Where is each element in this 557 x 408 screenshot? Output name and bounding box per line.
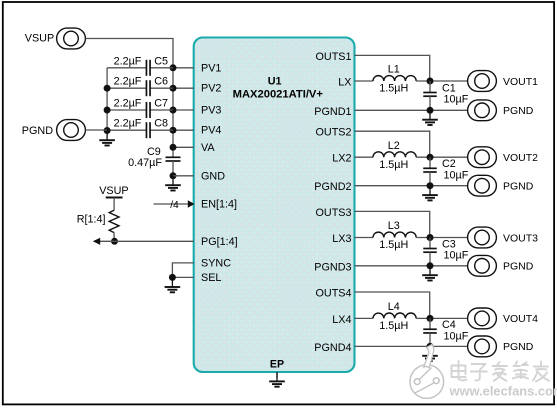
wire PGND to bus (85, 129, 107, 131)
terminal VOUT2 (468, 147, 497, 168)
svg-text:0.47µF: 0.47µF (128, 157, 162, 169)
junction PGND2 node (427, 182, 434, 189)
svg-text:PGND2: PGND2 (314, 181, 351, 193)
terminal PGND input (57, 120, 86, 141)
svg-text:OUTS2: OUTS2 (316, 127, 352, 139)
junction PV1 bus (170, 64, 177, 71)
svg-text:PV3: PV3 (201, 105, 221, 117)
terminal PGND out 3 (468, 255, 497, 276)
svg-text:EN[1:4]: EN[1:4] (201, 199, 237, 211)
wire OUTS2 (355, 131, 430, 154)
svg-text:1.5µH: 1.5µH (379, 239, 408, 251)
wire inductor to VOUT2 (416, 156, 468, 158)
svg-text:VOUT1: VOUT1 (503, 76, 538, 88)
wire OUTS4 (355, 292, 430, 315)
arrowhead PG output left (93, 238, 100, 245)
ground below SEL (165, 278, 181, 293)
svg-text:MAX20021ATI/V+: MAX20021ATI/V+ (233, 89, 324, 101)
ground below cap bus (99, 131, 115, 146)
wire VSUP to PV bus (85, 39, 173, 68)
svg-text:C2: C2 (442, 158, 456, 170)
wire cap ground bus (106, 68, 108, 131)
svg-text:2.2µF: 2.2µF (114, 98, 142, 110)
terminal VOUT3 (468, 227, 497, 248)
svg-text:VOUT2: VOUT2 (503, 152, 538, 164)
svg-text:C7: C7 (154, 98, 168, 110)
svg-text:R[1:4]: R[1:4] (77, 214, 106, 226)
svg-text:1.5µH: 1.5µH (379, 159, 408, 171)
svg-text:LX2: LX2 (332, 153, 351, 165)
terminal PGND out 1 (468, 100, 497, 121)
wire right of C5 (151, 67, 174, 69)
inductor L4 1.5uH (373, 313, 416, 318)
terminal VSUP input (57, 28, 86, 49)
resistor R[1:4] (109, 210, 119, 232)
wire down to C1 (429, 81, 431, 92)
svg-text:10µF: 10µF (444, 250, 469, 262)
wire LX2 to inductor (355, 156, 374, 158)
capacitor C5 2.2uF (146, 60, 150, 76)
wire to pin PV1 (173, 67, 194, 69)
wire down to C3 (429, 238, 431, 249)
svg-text:PV4: PV4 (201, 125, 221, 137)
svg-text:GND: GND (201, 170, 225, 182)
svg-text:VSUP: VSUP (25, 32, 54, 44)
wire PGND3 (355, 265, 468, 267)
capacitor C2 10uF (423, 168, 437, 172)
svg-text:VOUT3: VOUT3 (503, 232, 538, 244)
svg-text:PGND: PGND (503, 181, 534, 193)
ground channel 4 (422, 346, 438, 361)
junction PV3 bus (170, 107, 177, 114)
svg-text:VA: VA (201, 142, 215, 154)
svg-text:SYNC: SYNC (201, 257, 231, 269)
capacitor C6 2.2uF (146, 80, 150, 96)
junction PGND4 node (427, 343, 434, 350)
wire LX to inductor (355, 80, 374, 82)
IC U1 MAX20021ATI/V+ chip body (194, 38, 355, 373)
junction VA bus (170, 144, 177, 151)
wire right of C6 (151, 87, 174, 89)
wire to pin VA (173, 146, 194, 148)
wire rail to resistor (113, 198, 115, 211)
svg-text:www.elecfans.com: www.elecfans.com (449, 384, 557, 399)
wire C1 to PGND1 (429, 96, 431, 110)
ground channel 3 (422, 266, 438, 281)
svg-text:L4: L4 (388, 301, 400, 313)
junction PV2 bus (170, 85, 177, 92)
junction LX3 node (427, 234, 434, 241)
wire PV bus vertical (172, 68, 174, 158)
capacitor C4 10uF (423, 329, 437, 333)
terminal PGND out 2 (468, 175, 497, 196)
junction SEL (169, 274, 176, 281)
svg-text:2.2µF: 2.2µF (114, 76, 142, 88)
wire right of C7 (151, 109, 174, 111)
ground channel 2 (422, 186, 438, 201)
watermark magnifier icon (410, 345, 444, 399)
wire PGND2 (355, 185, 468, 187)
svg-text:PGND: PGND (503, 261, 534, 273)
svg-text:10µF: 10µF (444, 94, 469, 106)
wire right of C8 (151, 129, 174, 131)
svg-text:VOUT4: VOUT4 (503, 313, 538, 325)
wire C4 to PGND4 (429, 333, 431, 346)
junction PGND3 node (427, 262, 434, 269)
junction PGND1 node (427, 107, 434, 114)
wire inductor to VOUT4 (416, 317, 468, 319)
wire SYNC (172, 263, 193, 278)
power rail VSUP bar (106, 197, 123, 199)
svg-text:LX: LX (338, 77, 351, 89)
svg-text:LX4: LX4 (332, 314, 351, 326)
svg-text:2.2µF: 2.2µF (114, 55, 142, 67)
svg-text:2.2µF: 2.2µF (114, 118, 142, 130)
capacitor C7 2.2uF (146, 102, 150, 118)
wire to pin PV4 (173, 129, 194, 131)
svg-text:C8: C8 (154, 118, 168, 130)
wire C2 to PGND2 (429, 172, 431, 186)
junction cap bus (104, 107, 111, 114)
svg-text:PGND4: PGND4 (314, 342, 351, 354)
junction PV4 bus (170, 127, 177, 134)
wire PGND4 (355, 345, 468, 347)
inductor L2 1.5uH (373, 152, 416, 157)
wire EN[1:4] (154, 203, 189, 205)
junction LX4 node (427, 315, 434, 322)
terminal VOUT4 (468, 308, 497, 329)
svg-text:1.5µH: 1.5µH (379, 320, 408, 332)
arrowhead into EN pin (188, 200, 195, 207)
svg-text:OUTS4: OUTS4 (316, 288, 352, 300)
wire C9 to GND (172, 161, 174, 176)
wire inductor to VOUT3 (416, 237, 468, 239)
svg-text:C5: C5 (154, 55, 168, 67)
wire PG[1:4] (99, 240, 194, 242)
svg-text:PGND: PGND (503, 341, 534, 353)
svg-text:VSUP: VSUP (99, 185, 128, 197)
wire left of C8 (107, 129, 146, 131)
wire resistor to PG (113, 233, 115, 242)
inductor L3 1.5uH (373, 232, 416, 237)
svg-text:PV2: PV2 (201, 83, 221, 95)
svg-text:PGND1: PGND1 (314, 106, 351, 118)
svg-text:10µF: 10µF (444, 330, 469, 342)
wire EP to ground (276, 372, 278, 378)
svg-text:C1: C1 (442, 82, 456, 94)
svg-text:PGND: PGND (22, 125, 53, 137)
wire C3 to PGND3 (429, 252, 431, 266)
terminal PGND out 4 (468, 336, 497, 357)
junction GND (170, 172, 177, 179)
wire left of C6 (107, 87, 146, 89)
svg-text:OUTS3: OUTS3 (316, 207, 352, 219)
capacitor C9 0.47uF (166, 157, 181, 161)
terminal VOUT1 (468, 71, 497, 92)
svg-text:PV1: PV1 (201, 62, 221, 74)
svg-text:SEL: SEL (201, 272, 221, 284)
wire down to C4 (429, 318, 431, 329)
svg-text:OUTS1: OUTS1 (316, 51, 352, 63)
capacitor C1 10uF (423, 93, 437, 97)
wire OUTS3 (355, 211, 430, 234)
capacitor C8 2.2uF (146, 122, 150, 138)
watermark chinese text dian zi fa shao you (452, 361, 550, 381)
svg-text:L1: L1 (388, 64, 400, 76)
wire LX4 to inductor (355, 317, 374, 319)
svg-text:PGND3: PGND3 (314, 261, 351, 273)
wire LX3 to inductor (355, 237, 374, 239)
junction LX2 node (427, 154, 434, 161)
svg-text:PG[1:4]: PG[1:4] (201, 236, 238, 248)
svg-text:C3: C3 (442, 238, 456, 250)
wire to pin PV3 (173, 109, 194, 111)
wire left of C5 (107, 67, 146, 69)
junction PG node (111, 238, 118, 245)
inductor L1 1.5uH (373, 76, 416, 81)
wire down to C2 (429, 157, 431, 168)
junction cap bus (104, 85, 111, 92)
svg-text:LX3: LX3 (332, 233, 351, 245)
svg-text:EP: EP (270, 359, 284, 371)
svg-text:/4: /4 (170, 200, 179, 211)
svg-text:U1: U1 (268, 76, 282, 88)
junction LX1 node (427, 78, 434, 85)
svg-text:1.5µH: 1.5µH (379, 83, 408, 95)
svg-text:10µF: 10µF (444, 169, 469, 181)
wire OUTS1 (355, 55, 430, 78)
wire left of C7 (107, 109, 146, 111)
ground below C9 (165, 176, 181, 191)
ground EP (269, 372, 285, 387)
wire inductor to VOUT1 (416, 80, 468, 82)
ground channel 1 (422, 110, 438, 125)
svg-text:C4: C4 (442, 319, 456, 331)
junction cap bus PGND (104, 127, 111, 134)
svg-text:L2: L2 (388, 140, 400, 152)
svg-text:PGND: PGND (503, 105, 534, 117)
wire to pin PV2 (173, 87, 194, 89)
wire SEL (172, 276, 193, 278)
wire to pin GND (173, 175, 194, 177)
capacitor C3 10uF (423, 249, 437, 253)
wire PGND1 (355, 109, 468, 111)
svg-text:L3: L3 (388, 220, 400, 232)
svg-text:C6: C6 (154, 76, 168, 88)
